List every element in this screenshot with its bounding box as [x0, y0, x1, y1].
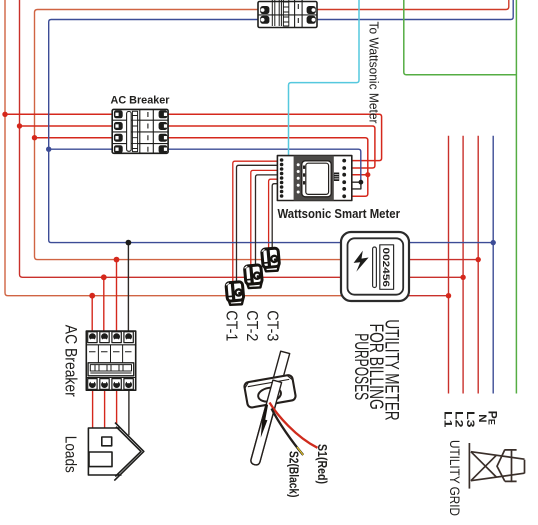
wire top right red from PV breaker to top edge	[317, 0, 509, 10]
wire CT-3 red signal	[269, 179, 278, 254]
svg-text:S2(Black): S2(Black)	[286, 451, 300, 498]
wire stub smart meter terminal 3R	[346, 174, 368, 176]
wire black neutral tap to loads breaker pole4	[127, 243, 129, 332]
label UTILITY METER FOR BILLING PURPOSES	[350, 319, 401, 420]
wire black jumper smart meter t4-t5	[346, 182, 361, 189]
wire drop L1 to loads breaker pole1	[91, 296, 93, 332]
wire neutral top right to top edge	[317, 0, 513, 20]
svg-text:S1(Red): S1(Red)	[315, 444, 329, 484]
wire drop L3 to loads breaker pole3	[116, 260, 118, 332]
CT detail arrow	[264, 405, 267, 421]
svg-text:CT-2: CT-2	[243, 310, 260, 341]
wire neutral breaker row4 to smart meter	[49, 149, 361, 182]
svg-text:CT-3: CT-3	[264, 310, 281, 341]
CT detail S2 black wire	[272, 409, 304, 456]
wire L1 phase left vertical to utility meter row	[5, 0, 341, 296]
svg-text:PE: PE	[485, 411, 499, 425]
wire black loads breaker pole4 to house roof	[128, 390, 130, 435]
svg-text:L2: L2	[452, 411, 464, 427]
svg-text:UTILITY GRID: UTILITY GRID	[446, 440, 462, 516]
wire grid bus PE	[515, 0, 517, 394]
wire drop L2 to loads breaker pole2	[103, 277, 105, 332]
wire L3 phase top loop down to utility meter row	[35, 10, 342, 260]
wire loads breaker pole1 to house	[92, 390, 94, 428]
CT-3 clamp	[262, 248, 280, 272]
wire CT-3 black signal	[272, 184, 277, 257]
CT detail cable tube full	[251, 351, 290, 465]
wire grid bus N	[492, 136, 494, 394]
svg-text:Loads: Loads	[62, 436, 79, 473]
wire grid bus L2	[462, 136, 464, 394]
wire CT-1 black signal	[237, 165, 278, 290]
utility grid tower	[469, 443, 524, 489]
svg-text:L3: L3	[464, 411, 476, 427]
CT detail body	[244, 374, 297, 408]
wire breaker row1 red to smart meter terminal 1R	[5, 114, 382, 160]
wire CT-2 red signal	[251, 170, 278, 270]
svg-text:L1: L1	[442, 411, 454, 428]
wire grid bus L3	[477, 136, 479, 394]
wire CT-2 black signal	[256, 175, 278, 273]
wire neutral main run	[49, 20, 494, 243]
wire PE branch	[404, 0, 517, 75]
wire CT-1 red signal	[233, 161, 278, 287]
breaker AC 4-pole (solar)	[112, 109, 168, 153]
wire breaker row3 red to smart meter terminal 6R	[35, 138, 368, 197]
svg-text:To Wattsonic Meter: To Wattsonic Meter	[367, 22, 381, 125]
breaker PV 2-pole (top)	[258, 0, 317, 28]
wire loads breaker pole3 to house	[116, 390, 118, 424]
CT detail drawing	[244, 351, 318, 465]
breaker AC 4-pole (loads)	[86, 331, 135, 390]
svg-text:CT-1: CT-1	[222, 310, 239, 341]
CT-1 clamp	[226, 282, 244, 306]
wire grid bus L1	[448, 136, 450, 394]
CT-2 clamp	[244, 265, 262, 289]
loads house icon	[88, 423, 143, 481]
smart meter U1 Wattsonic	[277, 156, 351, 201]
svg-text:002456: 002456	[380, 248, 391, 288]
svg-text:PURPOSES: PURPOSES	[350, 333, 371, 400]
wire RS485 cyan to wattsonic meter	[289, 0, 360, 156]
wire breaker row2 red to smart meter terminal 2R	[20, 126, 375, 168]
svg-text:AC Breaker: AC Breaker	[111, 94, 170, 106]
CT detail S1 red wire	[270, 403, 318, 448]
wire loads breaker pole2 to house	[104, 390, 106, 428]
CT detail cable lower front	[251, 380, 282, 465]
utility meter M1	[341, 232, 409, 301]
svg-text:AC Breaker: AC Breaker	[62, 325, 80, 397]
wire L2 phase left vertical to utility meter row	[20, 0, 464, 277]
svg-text:Wattsonic Smart Meter: Wattsonic Smart Meter	[278, 207, 401, 221]
